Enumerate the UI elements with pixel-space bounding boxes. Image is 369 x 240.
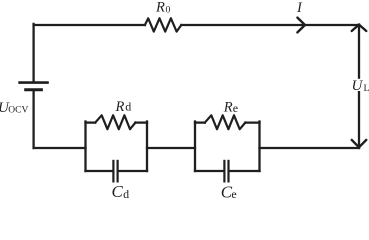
svg-text:OCV: OCV bbox=[8, 106, 28, 116]
svg-text:e: e bbox=[233, 101, 238, 115]
svg-text:C: C bbox=[112, 182, 124, 201]
svg-text:R: R bbox=[155, 0, 165, 15]
svg-text:R: R bbox=[223, 99, 233, 115]
svg-text:U: U bbox=[352, 78, 364, 94]
svg-text:R: R bbox=[115, 99, 125, 115]
svg-text:L: L bbox=[364, 83, 369, 94]
svg-text:d: d bbox=[125, 100, 131, 114]
svg-text:e: e bbox=[231, 187, 236, 201]
svg-text:d: d bbox=[123, 187, 129, 201]
svg-text:0: 0 bbox=[166, 4, 171, 15]
svg-text:I: I bbox=[296, 0, 303, 16]
